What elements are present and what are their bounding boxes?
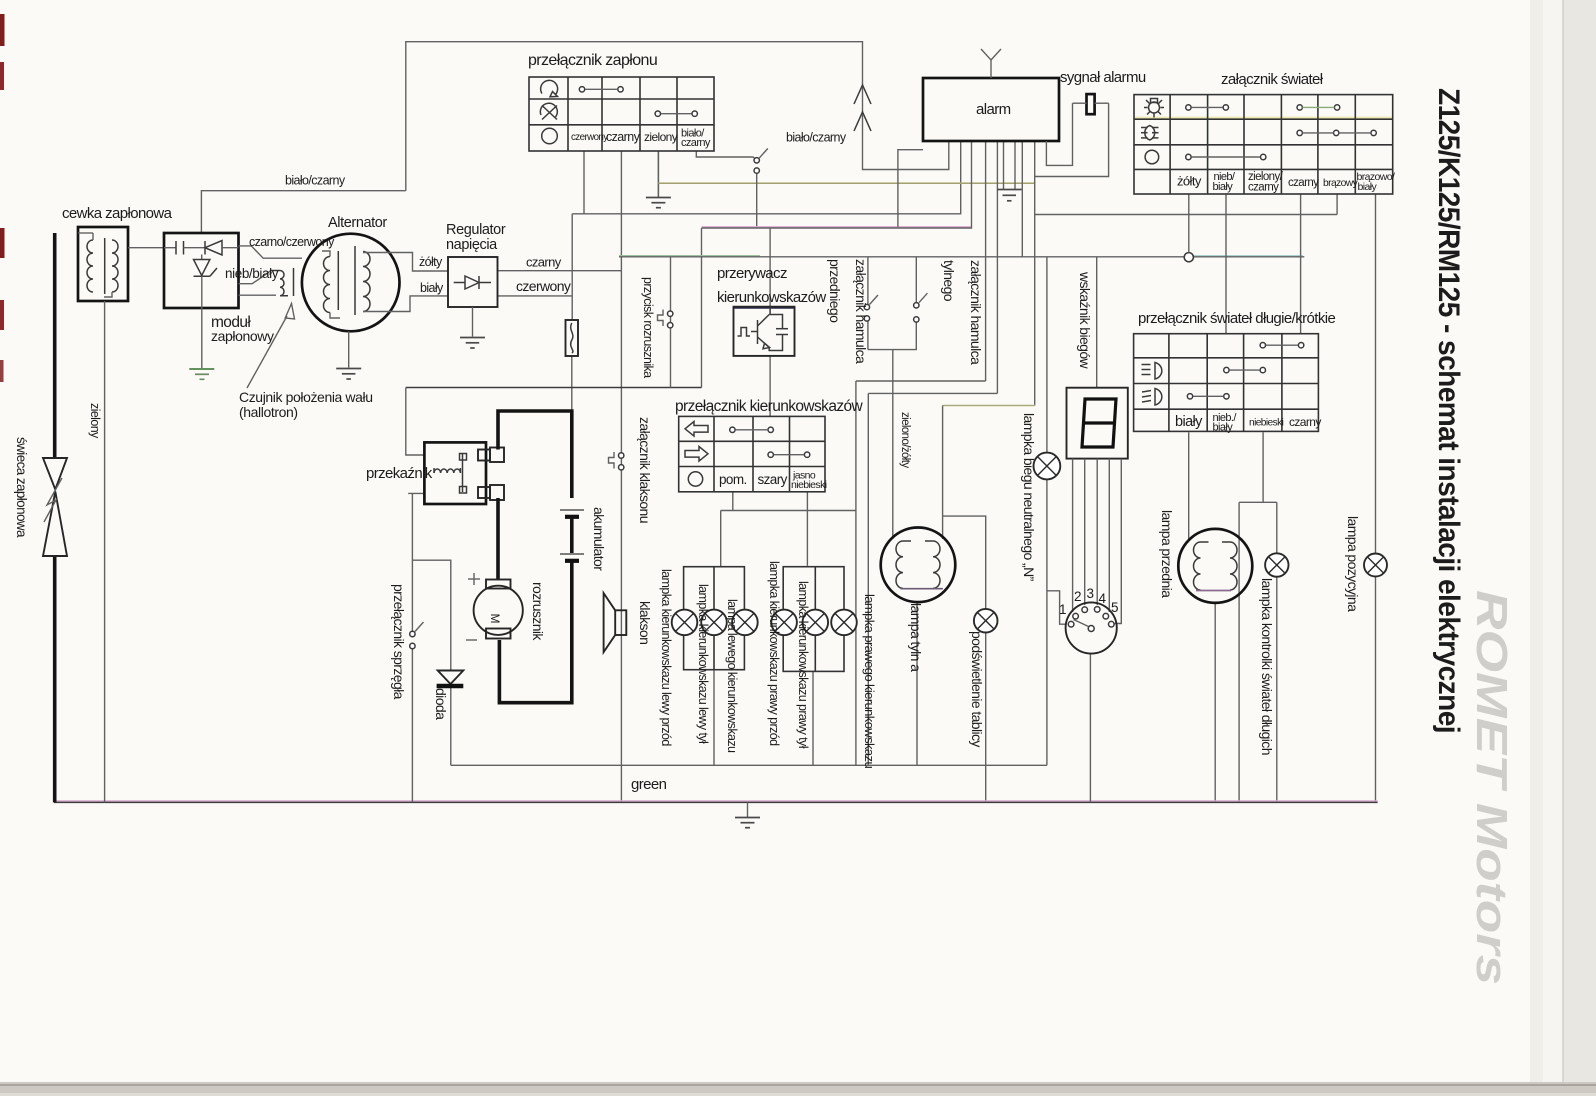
lamp box 1 left turn signals xyxy=(684,567,745,670)
svg-text:przełącznik zapłonu: przełącznik zapłonu xyxy=(528,52,657,69)
wire: dioda branch top xyxy=(412,560,450,669)
svg-text:akumulator: akumulator xyxy=(591,507,607,571)
spark zigzag xyxy=(44,478,62,522)
svg-text:czarno/czerwony: czarno/czerwony xyxy=(249,235,335,249)
wire: fuse feed down from rail A xyxy=(571,214,573,320)
svg-text:przycisk rozrusznika: przycisk rozrusznika xyxy=(641,277,655,378)
flasher capacitor xyxy=(776,328,788,330)
svg-text:przełącznik świateł długie/kró: przełącznik świateł długie/krótkie xyxy=(1138,310,1335,327)
ground: zielony column xyxy=(657,151,659,198)
svg-text:napięcia: napięcia xyxy=(446,237,498,253)
rail E y=381 xyxy=(856,380,986,382)
starter minus sign xyxy=(466,639,477,641)
svg-text:świeca zapłonowa: świeca zapłonowa xyxy=(14,437,29,538)
voltage regulator box xyxy=(448,257,498,307)
svg-text:Czujnik położenia wału: Czujnik położenia wału xyxy=(239,389,373,405)
fuse bezpiecznik xyxy=(566,320,579,356)
svg-text:green: green xyxy=(631,776,667,793)
ignition row2 rotate-X symbol xyxy=(540,103,557,117)
module ground green xyxy=(201,276,203,368)
wire: cewka to module xyxy=(128,247,164,249)
wire: kontrolka lamp feed xyxy=(1276,502,1278,553)
flasher pulse symbol xyxy=(738,328,751,337)
ground: alternator xyxy=(336,368,361,370)
svg-text:załącznik klaksonu: załącznik klaksonu xyxy=(637,417,653,523)
neutral indicator lamp lampka biegu neutralnego xyxy=(1034,453,1061,480)
node: rail D junction circle xyxy=(1184,253,1193,262)
wire: lamp box1 bottom xyxy=(713,670,715,766)
hall sensor core bar xyxy=(293,268,295,296)
wire: brake light feed to tail lamp xyxy=(892,350,894,539)
wire: lamp box2 bottom xyxy=(812,671,814,765)
wire: rail E corner down / horizontal y=510.5 / to rail green xyxy=(855,381,857,765)
svg-text:czarny: czarny xyxy=(526,255,562,270)
turn row1 contacts xyxy=(730,427,735,432)
rear brake switch contacts xyxy=(914,303,919,308)
ignition switch table frame xyxy=(529,77,714,151)
wire: zielony column from ignition to ground xyxy=(657,151,659,197)
wire: brazowo/bialy column to lampa pozycyjna xyxy=(1375,194,1377,554)
svg-text:lampka biegu neutralnego „N”: lampka biegu neutralnego „N” xyxy=(1021,413,1037,582)
svg-text:czerwony: czerwony xyxy=(516,278,571,294)
svg-text:biały: biały xyxy=(1213,181,1234,193)
svg-text:biały: biały xyxy=(1358,181,1378,193)
lamp L6 lampka prawego kierunkowskazu xyxy=(831,610,857,636)
flasher transistor xyxy=(751,331,758,333)
alarm pin 5 to rail F xyxy=(996,141,998,393)
wire: neutral tee to sensor pin1 xyxy=(1047,591,1066,624)
svg-text:czerwony: czerwony xyxy=(571,132,608,143)
wire: czerwony from regulator xyxy=(498,295,573,297)
svg-text:cewka zapłonowa: cewka zapłonowa xyxy=(62,205,173,222)
svg-text:przerywacz: przerywacz xyxy=(717,265,787,282)
wire: dioda to rail green xyxy=(450,688,452,766)
thick wire battery minus loop to starter xyxy=(499,562,571,703)
wire: brazowy column to rail B xyxy=(1336,194,1338,215)
alternator right coil xyxy=(363,252,370,312)
gear indicator display box wskaznik biegow xyxy=(1067,388,1128,459)
svg-text:żółty: żółty xyxy=(419,255,443,269)
ignition row1 contacts xyxy=(579,87,584,92)
alarm antenna xyxy=(990,60,992,78)
wire: alternator zolty output xyxy=(363,253,448,272)
hi/lo row3 contacts xyxy=(1187,394,1192,399)
wire: buzzer left leg xyxy=(1046,103,1072,165)
bialo/czarny switch contacts xyxy=(754,158,759,163)
wire: relay left stub xyxy=(408,492,424,494)
position lamp lampa pozycyjna xyxy=(1364,554,1387,577)
headlight symbol xyxy=(1145,126,1155,141)
rail C pink bialo/czarny y=228 xyxy=(702,226,972,228)
svg-text:podświetlenie tablicy: podświetlenie tablicy xyxy=(969,631,985,747)
7-segment digit xyxy=(1082,399,1116,447)
svg-text:lampka kontrolki świateł długi: lampka kontrolki świateł długich xyxy=(1259,578,1275,755)
spark plug thick wire xyxy=(53,233,57,457)
svg-text:dioda: dioda xyxy=(433,688,449,720)
ignition row3 circle symbol xyxy=(542,128,558,144)
wire: przerywacz feed from rail C xyxy=(769,228,771,307)
svg-text:szary: szary xyxy=(758,472,788,487)
svg-text:nieb/biały: nieb/biały xyxy=(225,266,279,281)
connector chevron 2 xyxy=(854,112,871,131)
svg-text:zielony: zielony xyxy=(88,403,102,439)
wire: podswietlenie lamp to bottom rail xyxy=(985,633,987,803)
starter motor rozrusznik xyxy=(474,586,523,635)
wire: nieb/bialy column swiatel to dlugie table xyxy=(1225,194,1227,334)
hi/lo switch table frame xyxy=(1134,334,1319,432)
front lamp lampa przednia circle xyxy=(1178,529,1252,603)
cewka primary coil xyxy=(87,240,93,292)
wire: zielony/yellow branch rail to alarm pin xyxy=(658,182,1034,184)
lamp L4 lampka kierunkowskazu prawy przod xyxy=(771,610,797,636)
rail green y=765.3 xyxy=(451,764,1047,766)
turn row2 contacts xyxy=(768,452,773,457)
wire: niebieski column dlugie step xyxy=(1262,432,1264,502)
wire: przerywacz out to kierunkowskazy table xyxy=(769,356,771,417)
svg-text:lampka kierunkowskazu prawy pr: lampka kierunkowskazu prawy przód xyxy=(767,561,781,746)
wire: bialo/czarny column from ignition to switch xyxy=(696,151,756,160)
svg-text:lampa tyln a: lampa tyln a xyxy=(908,603,924,672)
wire: fuse to battery corner xyxy=(571,356,573,411)
svg-text:czarny: czarny xyxy=(1248,182,1279,194)
diode dioda xyxy=(438,671,464,685)
wire: loop top horizontal xyxy=(406,387,702,389)
lamp L2 lampka kierunkowskazu lewy tyl xyxy=(701,610,727,636)
svg-text:rozrusznik: rozrusznik xyxy=(530,582,546,641)
svg-text:zielony: zielony xyxy=(644,130,678,144)
lamp L1 lampka kierunkowskazu lewy przod xyxy=(672,610,698,636)
wire: module lead 3 xyxy=(239,294,277,296)
alarm pin 2 rail A done above; alarm pin 4 to rail E xyxy=(985,141,987,381)
wire: bialo/czarny into module area xyxy=(201,191,405,233)
wire: sensor center to bottom rail xyxy=(1089,654,1091,803)
relay coil spring xyxy=(434,469,460,473)
svg-text:pom.: pom. xyxy=(719,472,747,487)
ignition module box modul zaplonowy xyxy=(164,233,239,308)
wire: clutch switch line xyxy=(411,493,413,631)
hi/lo row1 contacts xyxy=(1260,343,1265,348)
front lamp left coil xyxy=(1194,542,1201,590)
wire: gear display feed from rail D xyxy=(1096,257,1098,388)
clutch switch przelacznik sprzegla xyxy=(410,631,415,636)
hall sensor coil czujnik polozenia walu xyxy=(271,271,288,296)
svg-text:1: 1 xyxy=(1059,602,1066,617)
lamp L3 lampa lewego kierunkowskazu xyxy=(732,610,758,636)
tail lamp bottom bar xyxy=(900,588,943,590)
light switch table frame xyxy=(1134,117,1393,120)
svg-text:czarny: czarny xyxy=(606,130,641,144)
relay terminal upper xyxy=(478,450,490,461)
lo-beam symbol xyxy=(1155,389,1162,406)
alarm pin 7 to rail D xyxy=(1021,141,1023,257)
svg-text:załącznik hamulca: załącznik hamulca xyxy=(968,260,984,365)
display output wires xyxy=(1072,459,1074,612)
svg-text:niebieski: niebieski xyxy=(1249,418,1284,429)
svg-text:lampa lewego kierunkowskazu: lampa lewego kierunkowskazu xyxy=(725,599,739,753)
cewka core line xyxy=(104,238,106,294)
wire: jasno-niebieski column to lamp box2 xyxy=(806,492,808,566)
svg-text:(hallotron): (hallotron) xyxy=(239,404,298,420)
wire: neutral lamp line from rail D xyxy=(1046,257,1048,453)
module thyristor xyxy=(201,255,203,260)
wire: pom column stub xyxy=(732,492,734,511)
starter plus sign xyxy=(468,578,480,580)
svg-text:czarny: czarny xyxy=(681,137,711,149)
wire: loop right vertical from rail C down xyxy=(701,228,703,388)
svg-text:załącznik świateł: załącznik świateł xyxy=(1221,71,1324,88)
bulb symbol xyxy=(1149,102,1160,113)
svg-text:zapłonowy: zapłonowy xyxy=(211,328,274,344)
wire: regulator ground xyxy=(472,307,474,337)
cewka internal leads xyxy=(92,233,94,240)
svg-text:lampa pozycyjna: lampa pozycyjna xyxy=(1345,516,1361,612)
wire: zielony from cewka bottom xyxy=(104,301,106,802)
module capacitor xyxy=(164,247,176,249)
relay armature xyxy=(462,454,464,492)
rail A czerwony y=213.8 xyxy=(572,141,961,214)
thick wire relay to starter plus xyxy=(496,498,500,580)
row1 contacts a xyxy=(1186,105,1191,110)
wire: horizontal y=510.5 to lamp boxes xyxy=(721,510,856,512)
svg-text:załącznik hamulca: załącznik hamulca xyxy=(853,259,869,364)
svg-text:alarm: alarm xyxy=(976,101,1011,118)
svg-text:biały: biały xyxy=(1213,422,1234,434)
svg-text:lampka kierunkowskazu lewy tył: lampka kierunkowskazu lewy tył xyxy=(696,584,710,744)
wire: czarno/czerwony module to alternator xyxy=(239,246,303,258)
svg-text:przełącznik sprzęgła: przełącznik sprzęgła xyxy=(391,584,407,700)
wire: buzzer right leg xyxy=(1035,103,1109,176)
cewka secondary coil xyxy=(112,240,118,292)
svg-text:lampka kierunkowskazu lewy prz: lampka kierunkowskazu lewy przód xyxy=(659,569,673,746)
ignition row2 contacts xyxy=(655,111,660,116)
row2 contacts xyxy=(1297,130,1302,135)
wire: czarny column from ignition switch down to bottom rail xyxy=(620,151,622,802)
rail F y=393.4 xyxy=(868,392,997,394)
ignition coil cewka zaplonowa box xyxy=(78,227,128,301)
row1 contacts b green line xyxy=(1297,105,1302,110)
svg-text:czarny: czarny xyxy=(1289,415,1321,429)
wire: alternator bialy output xyxy=(363,296,448,312)
wire: neutral lamp to sensor and rail green xyxy=(1046,480,1048,766)
turn signal flasher przerywacz box xyxy=(734,306,795,309)
starter button przycisk rozrusznika xyxy=(658,310,664,327)
spark plug bowtie swieca zaplonowa xyxy=(43,458,67,490)
tail lamp left coil xyxy=(896,541,903,588)
wire: podswietlenie tee xyxy=(943,516,986,609)
module diode xyxy=(204,241,206,255)
svg-text:niebieski: niebieski xyxy=(791,479,827,491)
hi/lo row2 contacts xyxy=(1224,367,1229,372)
svg-text:wskaźnik biegów: wskaźnik biegów xyxy=(1077,271,1093,370)
svg-text:Alternator: Alternator xyxy=(328,215,387,231)
wire: bialy column dlugie to front lamp xyxy=(1188,432,1190,541)
wire: czarny from regulator xyxy=(498,270,622,272)
svg-text:lampka kierunkowskazu prawy ty: lampka kierunkowskazu prawy tył xyxy=(796,581,810,749)
wire: module lead 2 to hall sensor xyxy=(239,271,272,284)
wire: czerwony column from ignition switch to rail A xyxy=(583,151,585,214)
relay przekaznik box xyxy=(424,442,486,504)
alarm ground pins xyxy=(1003,141,1005,190)
ground: bottom rail xyxy=(747,802,749,817)
wire: alarm left pin to rail C xyxy=(898,150,923,227)
horn klakson xyxy=(615,610,626,635)
svg-text:sygnał alarmu: sygnał alarmu xyxy=(1060,69,1146,86)
hi-beam symbol xyxy=(1155,363,1162,380)
tail lamp right coil xyxy=(933,541,940,588)
svg-text:przedniego: przedniego xyxy=(827,259,843,323)
sensor center pin and wiper xyxy=(1088,626,1094,632)
tail lamp lampa tylna circle xyxy=(881,528,956,603)
svg-text:2: 2 xyxy=(1074,589,1081,604)
svg-text:lampka prawego kierunkowskazu: lampka prawego kierunkowskazu xyxy=(862,594,877,768)
svg-text:żółty: żółty xyxy=(1177,174,1202,189)
wire: tail lamp bottom xyxy=(916,602,918,765)
svg-text:3: 3 xyxy=(1087,586,1094,601)
arrow to hall sensor xyxy=(247,316,287,388)
svg-text:przełącznik kierunkowskazów: przełącznik kierunkowskazów xyxy=(675,398,864,415)
svg-text:biały: biały xyxy=(1175,414,1203,430)
red scan marks left edge xyxy=(0,14,5,46)
lamp box 2 right turn signals xyxy=(783,567,844,672)
svg-text:4: 4 xyxy=(1099,591,1107,606)
alternator internal leads xyxy=(322,251,330,257)
wire: front lamp bottom to rail xyxy=(1214,603,1216,803)
wire: alternator to ground xyxy=(348,331,350,367)
sensor pins xyxy=(1068,621,1074,627)
wire: between battery cells xyxy=(570,518,574,553)
flasher internal wires xyxy=(769,315,782,329)
svg-text:biało/czarny: biało/czarny xyxy=(285,174,346,188)
svg-text:klakson: klakson xyxy=(637,601,653,644)
bottom rail y=802.4 xyxy=(54,800,1378,802)
horn button zalacznik klaksonu xyxy=(609,452,615,469)
wire: pozycyjna to bottom rail corner xyxy=(1375,577,1377,803)
battery akumulator xyxy=(560,509,584,511)
svg-text:tylnego: tylnego xyxy=(941,260,957,302)
alternator core bars xyxy=(337,251,339,310)
alternator left coil xyxy=(324,257,330,313)
row3 circle symbol xyxy=(1145,150,1159,164)
front lamp bottom bar purple xyxy=(1196,590,1231,592)
svg-text:Regulator: Regulator xyxy=(446,222,506,238)
left arrow symbol xyxy=(685,422,708,437)
wire: zolty column swiatel to node xyxy=(1188,194,1190,253)
regulator diode xyxy=(454,282,465,284)
panel light podswietlenie tablicy xyxy=(974,609,998,633)
right arrow symbol xyxy=(685,447,708,462)
turn row3 circle xyxy=(688,472,702,486)
wire: przycisk rozrusznika line xyxy=(670,257,672,388)
turn signal switch table frame xyxy=(679,416,825,491)
wire: G corner down to tail lamp right coil xyxy=(942,406,944,540)
svg-text:M: M xyxy=(488,614,502,624)
row3 contacts xyxy=(1186,154,1191,159)
svg-text:czarny: czarny xyxy=(1288,177,1319,189)
wire: front brake switch line xyxy=(867,257,869,305)
front lamp right coil xyxy=(1230,542,1237,590)
front brake switch contacts xyxy=(864,304,869,309)
svg-text:biały: biały xyxy=(420,281,444,295)
alternator circle xyxy=(302,234,400,332)
svg-text:lampa przednia: lampa przednia xyxy=(1159,510,1175,598)
gear position sensor circle xyxy=(1066,602,1117,653)
wire: loop left into relay xyxy=(406,388,425,456)
wire: rail F corner down to tail lamp right area xyxy=(867,393,869,765)
svg-text:ROMET Motors: ROMET Motors xyxy=(1467,590,1516,985)
rail G yellow y=405.5 xyxy=(943,405,1035,407)
ignition row1 rotate symbol xyxy=(541,80,558,95)
svg-text:biało/czarny: biało/czarny xyxy=(786,131,847,145)
relay terminal lower xyxy=(478,487,490,498)
high beam indicator lampka kontrolki swiatel dlugich xyxy=(1265,553,1288,576)
wire: left branch down xyxy=(1238,502,1240,802)
rail B y=214.5 buzzer to brazowy xyxy=(1035,214,1337,216)
thick wire relay to battery xyxy=(498,411,572,498)
connector chevron 1 xyxy=(854,85,871,104)
svg-text:zielono/żółty: zielono/żółty xyxy=(899,412,911,468)
wire: top rail bialo/czarny from ignition area to alarm antenna xyxy=(406,42,949,191)
svg-text:brązowy: brązowy xyxy=(1323,178,1359,189)
alarm signal buzzer syg. alarmu xyxy=(1087,94,1095,114)
wire: czarny column swiatel down to dlugie table xyxy=(1300,194,1302,334)
alarm box xyxy=(923,78,1059,141)
wire: switch to pink rail C xyxy=(756,171,758,228)
lamp L5 lampka kierunkowskazu prawy tyl xyxy=(803,610,829,636)
ground: alarm xyxy=(997,189,1022,191)
wire: into lamp box1 xyxy=(720,511,722,567)
svg-text:kierunkowskazów: kierunkowskazów xyxy=(717,289,826,306)
alarm pin 8 through to yellow rail G xyxy=(1034,141,1036,406)
wire: brake switches common U xyxy=(868,349,917,351)
svg-text:Z125/K125/RM125 - schemat inst: Z125/K125/RM125 - schemat instalacji ele… xyxy=(1432,88,1465,733)
svg-text:przekaźnik: przekaźnik xyxy=(366,465,433,482)
wire: kontrolka to bottom rail xyxy=(1276,577,1278,803)
svg-text:5: 5 xyxy=(1111,600,1118,615)
rail D main power y=256.8 xyxy=(619,255,760,257)
wire: rear brake switch line xyxy=(915,257,917,303)
